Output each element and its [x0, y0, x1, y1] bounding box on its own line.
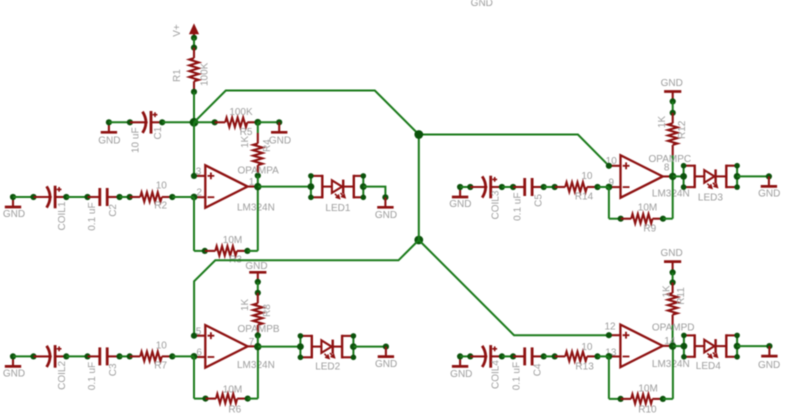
pin dot R7 right — [169, 353, 175, 359]
pin dot C2 left — [84, 194, 90, 200]
svg-text:R14: R14 — [575, 191, 594, 202]
pin dot C4 left — [510, 353, 516, 359]
wire node BIAS to node MID (top rail) — [194, 91, 419, 135]
pin dot R3 right — [244, 248, 250, 254]
LED LED1 — [322, 180, 354, 199]
wire R3 to right rail — [247, 250, 257, 252]
wire R11 to output node — [672, 325, 674, 346]
wire LED2 to GND — [353, 346, 386, 348]
svg-text:1K: 1K — [662, 285, 673, 298]
pin dot R14 right — [594, 184, 600, 190]
wire R8 to output node — [257, 335, 259, 346]
svg-text:R8: R8 — [262, 304, 273, 317]
svg-text:1: 1 — [249, 177, 255, 188]
connector pad JP3 (LED2 anode) — [300, 335, 311, 359]
svg-text:10M: 10M — [223, 385, 242, 396]
svg-text:GND: GND — [449, 199, 471, 210]
node MID junction — [414, 130, 423, 139]
svg-text:LM324N: LM324N — [237, 203, 275, 214]
ground — [377, 197, 393, 207]
svg-text:0.1 uF: 0.1 uF — [87, 362, 98, 390]
svg-text:V+: V+ — [172, 24, 183, 37]
svg-text:GND: GND — [98, 135, 120, 146]
ground — [452, 187, 468, 197]
svg-text:0.1 uF: 0.1 uF — [512, 193, 523, 221]
svg-text:R2: R2 — [154, 201, 167, 212]
connector pad JP4 (LED2 cathode) — [342, 335, 353, 359]
wire R13 to op-amp - — [598, 355, 609, 357]
pin dot R7 left — [127, 353, 133, 359]
svg-text:1K: 1K — [240, 135, 251, 148]
wire LED1 to GND — [363, 187, 385, 198]
svg-text:10: 10 — [581, 342, 593, 353]
pin dot op-amp +in — [606, 163, 612, 169]
ground — [101, 122, 117, 132]
ground (above R8) — [249, 272, 266, 282]
svg-text:OPAMPD: OPAMPD — [652, 323, 695, 334]
pin dot GND — [106, 119, 112, 125]
pin dot R3 left — [202, 248, 208, 254]
ground (above R11) — [664, 262, 681, 273]
svg-text:1K: 1K — [657, 115, 668, 128]
pin dot R9 right — [660, 216, 666, 222]
svg-text:R4: R4 — [262, 139, 273, 152]
pin dot GND — [255, 279, 261, 285]
wire GND to COIL1 — [13, 196, 34, 198]
ground — [378, 347, 394, 357]
pin dot GND — [670, 269, 676, 275]
svg-text:GND: GND — [471, 0, 493, 9]
wire R10 to right rail — [663, 398, 673, 400]
ground — [761, 176, 777, 186]
node R5/R4 junction — [254, 119, 261, 126]
wire C2 to R2 — [120, 196, 130, 198]
wire output to LED pad — [673, 345, 684, 347]
pin dot R10 left — [618, 396, 624, 402]
wire GND to COIL2 — [13, 355, 34, 357]
svg-text:LED1: LED1 — [325, 203, 350, 214]
wire node BIAS to op-amp + — [193, 122, 195, 176]
wire feedback left rail — [608, 187, 610, 219]
svg-text:LED4: LED4 — [696, 361, 721, 372]
pin dot op-amp +in — [191, 173, 197, 179]
svg-text:C3: C3 — [108, 363, 119, 376]
wire node BIAS to R5 — [194, 121, 215, 123]
resistor R14 — [555, 182, 598, 191]
svg-text:COIL3: COIL3 — [491, 190, 502, 219]
resistor R3 — [205, 246, 248, 255]
svg-text:LM324N: LM324N — [652, 359, 690, 370]
svg-text:LM324N: LM324N — [237, 360, 275, 371]
wire R12 to output node — [672, 155, 674, 176]
wire feedback right rail — [672, 346, 674, 399]
svg-text:COIL1: COIL1 — [57, 201, 68, 230]
pin dot R9 left — [618, 216, 624, 222]
node IN-B junction — [191, 353, 198, 360]
capacitor COIL4 — [470, 345, 502, 368]
ground — [271, 122, 287, 132]
capacitor C1 — [130, 111, 162, 134]
pin dot R6 left — [202, 396, 208, 402]
resistor R7 — [130, 352, 173, 361]
pin dot GND — [276, 119, 282, 125]
wire feedback right rail — [257, 347, 259, 399]
svg-text:12: 12 — [604, 321, 616, 332]
svg-text:GND: GND — [3, 369, 25, 380]
pin dot C5 left — [510, 184, 516, 190]
wire C1 to node BIAS — [162, 121, 194, 123]
node OUT-C junction — [669, 173, 676, 180]
pin dot COIL3 left — [467, 184, 473, 190]
wire GND to R8 — [257, 282, 259, 293]
svg-text:10: 10 — [156, 341, 168, 352]
pin dot C5 right — [541, 184, 547, 190]
node OUT-D junction — [669, 342, 676, 349]
op-amp U1B OPAMPB — [194, 325, 257, 368]
wire feedback left rail — [608, 356, 610, 399]
svg-text:10: 10 — [581, 171, 593, 182]
connector pad JP8 (LED4 cathode) — [726, 334, 737, 358]
pin dot R13 left — [552, 353, 558, 359]
node BIAS junction — [190, 118, 199, 127]
pin dot R8 top — [255, 290, 261, 296]
svg-text:LED2: LED2 — [315, 362, 340, 373]
pin dot GND — [766, 343, 772, 349]
svg-text:R7: R7 — [154, 361, 167, 372]
svg-text:GND: GND — [758, 360, 780, 371]
pin dot R14 left — [552, 184, 558, 190]
wire COIL3 to C5 — [502, 186, 513, 188]
svg-text:GND: GND — [450, 369, 472, 380]
resistor R12 — [668, 113, 677, 156]
capacitor COIL3 — [470, 176, 502, 199]
svg-text:C4: C4 — [532, 363, 543, 376]
connector pad JP7 (LED4 anode) — [684, 334, 695, 358]
wire R1 to node BIAS — [193, 92, 195, 123]
svg-text:C5: C5 — [534, 194, 545, 207]
node OUT-A junction — [254, 183, 261, 190]
pin dot COIL2 left — [30, 353, 36, 359]
resistor R11 — [668, 283, 677, 326]
ground — [5, 197, 21, 207]
svg-text:GND: GND — [660, 248, 682, 259]
pin dot C4 right — [541, 353, 547, 359]
ground — [761, 346, 777, 356]
pin dot R8 bottom — [255, 332, 261, 338]
pin dot C3 left — [84, 353, 90, 359]
svg-text:GND: GND — [245, 261, 267, 272]
pin dot GND — [457, 184, 463, 190]
wire R14 to op-amp - — [598, 186, 609, 188]
wire feedback left rail — [193, 356, 195, 398]
pin dot GND — [457, 353, 463, 359]
pin dot R5 left — [212, 119, 218, 125]
wire node MID to node MID2 — [418, 135, 420, 241]
pin dot R12 top — [670, 110, 676, 116]
LED LED4 — [695, 339, 727, 358]
pin dot C2 right — [116, 194, 122, 200]
capacitor C2 — [88, 188, 120, 206]
svg-text:GND: GND — [375, 359, 397, 370]
svg-text:GND: GND — [661, 78, 683, 89]
wire to R10 — [609, 398, 621, 400]
wire GND to R12 — [672, 101, 674, 112]
connector pad JP1 (LED1 anode) — [311, 175, 322, 199]
op-amp U1D OPAMPD — [609, 325, 673, 368]
supply V+ — [190, 25, 199, 38]
svg-text:GND: GND — [375, 210, 397, 221]
wire to R4 — [257, 122, 259, 133]
pin dot COIL1 left — [30, 194, 36, 200]
pin dot R1 bottom — [191, 89, 197, 95]
pin dot R4 bottom — [255, 173, 261, 179]
wire COIL2 to C3 — [66, 355, 87, 357]
pin dot GND — [10, 353, 16, 359]
wire R2 to op-amp - — [172, 196, 194, 198]
resistor R5 — [215, 118, 258, 127]
ground — [5, 356, 21, 366]
pin dot R13 right — [594, 353, 600, 359]
svg-text:1K: 1K — [240, 298, 251, 311]
svg-text:COIL4: COIL4 — [491, 360, 502, 389]
wire node MID2 to op-amp B + — [194, 240, 419, 336]
svg-text:R10: R10 — [638, 404, 657, 415]
wire GND to R11 — [672, 272, 674, 282]
pin dot R1 top — [191, 45, 197, 51]
wire to R6 — [194, 398, 206, 400]
wire feedback right rail — [257, 187, 259, 251]
svg-text:LED3: LED3 — [698, 193, 723, 204]
svg-text:0.1 uF: 0.1 uF — [87, 202, 98, 230]
pin dot COIL4 right — [499, 353, 505, 359]
wire node MID2 to op-amp D + — [419, 240, 609, 335]
pin dot R11 top — [670, 279, 676, 285]
connector pad JP5 (LED3 anode) — [684, 165, 695, 189]
wire output to LED pad — [258, 186, 311, 188]
svg-text:COIL2: COIL2 — [57, 361, 68, 390]
pin dot COIL4 left — [467, 353, 473, 359]
wire GND to COIL3 — [460, 186, 470, 188]
svg-text:C2: C2 — [108, 204, 119, 217]
svg-text:R1: R1 — [172, 69, 183, 82]
wire C5 to R14 — [544, 186, 555, 188]
ground (above R12) — [664, 92, 681, 102]
svg-text:C1: C1 — [153, 126, 164, 139]
pin dot GND — [670, 98, 676, 104]
node OUT-B junction — [254, 343, 261, 350]
svg-text:10M: 10M — [223, 235, 242, 246]
wire to R3 — [194, 250, 205, 252]
pin dot COIL2 right — [63, 353, 69, 359]
resistor R10 — [621, 394, 663, 403]
wire COIL4 to C4 — [502, 355, 513, 357]
svg-text:R6: R6 — [228, 404, 241, 415]
node IN-C junction — [606, 184, 613, 191]
wire LED4 to GND — [737, 345, 769, 347]
pin dot C3 right — [116, 353, 122, 359]
svg-text:0.1 uF: 0.1 uF — [511, 362, 522, 390]
svg-text:10M: 10M — [638, 384, 657, 395]
wire R6 to right rail — [248, 398, 258, 400]
resistor R13 — [555, 352, 598, 361]
pin dot op-amp +in — [191, 333, 197, 339]
svg-text:7: 7 — [249, 337, 255, 348]
pin dot V+ — [191, 35, 197, 41]
pin dot R2 right — [169, 194, 175, 200]
svg-text:OPAMPB: OPAMPB — [238, 324, 280, 335]
wire C4 to R13 — [544, 355, 555, 357]
svg-text:10 uF: 10 uF — [131, 127, 142, 153]
resistor R4 — [253, 133, 262, 176]
wire GND to C1 — [109, 121, 130, 123]
wire R9 to right rail — [663, 218, 673, 220]
svg-text:10M: 10M — [638, 203, 657, 214]
svg-text:R13: R13 — [575, 361, 594, 372]
pin dot GND — [10, 194, 16, 200]
pin dot op-amp +in — [606, 332, 612, 338]
resistor R9 — [621, 214, 663, 223]
svg-text:R12: R12 — [677, 120, 688, 139]
svg-text:10: 10 — [156, 181, 168, 192]
wire LED3 to GND — [737, 175, 769, 177]
capacitor C4 — [513, 347, 544, 365]
svg-text:R9: R9 — [643, 224, 656, 235]
capacitor C5 — [513, 178, 544, 196]
wire R7 to op-amp - — [172, 355, 194, 357]
pin dot GND — [766, 173, 772, 179]
pin dot C1 right — [159, 119, 165, 125]
wire output to LED pad — [258, 346, 301, 348]
pin dot C1 left — [127, 119, 133, 125]
node IN-A junction — [191, 194, 198, 201]
pin dot R10 right — [660, 396, 666, 402]
wire to GND — [258, 121, 279, 123]
wire node MID to op-amp C + — [419, 135, 609, 166]
svg-text:LM324N: LM324N — [652, 188, 690, 199]
resistor R6 — [206, 394, 248, 403]
LED LED3 — [695, 169, 727, 188]
pin dot COIL3 right — [499, 184, 505, 190]
pin dot GND — [383, 344, 389, 350]
wire V+ to R1 — [193, 38, 195, 48]
pin dot R6 right — [245, 396, 251, 402]
resistor R1 — [189, 48, 198, 92]
pin dot COIL1 right — [63, 194, 69, 200]
wire to R9 — [609, 218, 621, 220]
svg-text:GND: GND — [3, 209, 25, 220]
pin dot R2 left — [127, 194, 133, 200]
wire feedback left rail — [193, 197, 195, 251]
connector pad JP2 (LED1 cathode) — [354, 175, 364, 199]
op-amp U1A OPAMPA — [194, 165, 257, 208]
svg-text:OPAMPA: OPAMPA — [238, 166, 280, 177]
wire output to LED pad — [673, 175, 684, 177]
LED LED2 — [312, 340, 342, 359]
wire GND to COIL4 — [460, 355, 470, 357]
pin dot GND — [382, 194, 388, 200]
capacitor COIL2 — [34, 345, 67, 368]
capacitor C3 — [88, 347, 120, 365]
resistor R8 — [253, 293, 262, 336]
wire feedback right rail — [672, 176, 674, 218]
ground — [452, 356, 468, 366]
wire C3 to R7 — [120, 355, 130, 357]
capacitor COIL1 — [34, 186, 67, 209]
node MID2 junction — [414, 236, 423, 245]
connector pad JP6 (LED3 cathode) — [726, 165, 737, 189]
node IN-D junction — [606, 353, 613, 360]
svg-text:100K: 100K — [200, 62, 211, 86]
op-amp U1C OPAMPC — [610, 155, 674, 198]
resistor R2 — [130, 192, 173, 201]
svg-text:GND: GND — [758, 189, 780, 200]
svg-text:R11: R11 — [676, 287, 687, 305]
wire R4 to output node — [257, 176, 259, 187]
wire COIL1 to C2 — [66, 196, 87, 198]
svg-text:100K: 100K — [229, 107, 253, 118]
